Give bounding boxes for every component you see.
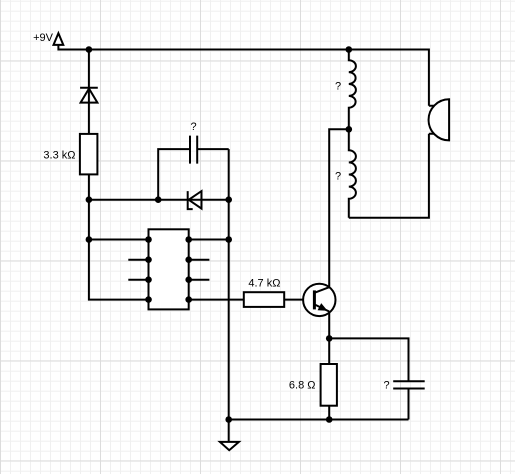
transistor Q1 collector diagonal [314, 287, 329, 293]
svg-text:?: ? [335, 81, 341, 93]
wire: middle branch from C1 down to ground [228, 149, 230, 442]
junction: IC pin 3 left [145, 276, 152, 283]
transistor Q1 emitter arrow [318, 303, 328, 311]
junction: C1 left leg at y=200 [155, 196, 162, 203]
junction: inductors L1/L2 / collector wire [346, 126, 353, 133]
svg-text:?: ? [383, 380, 389, 392]
speaker LS1 connector stubs [429, 106, 434, 134]
junction: IC pin 2 right [185, 256, 192, 263]
junction: IC pin 4 left [145, 296, 152, 303]
wire: bottom rail from ground branch to C2 [229, 419, 409, 421]
inductor L1 (value ?) [349, 50, 356, 130]
IC U1 body [149, 229, 189, 309]
wire: capacitor C1 right leg [197, 148, 229, 150]
junction: IC pin 1 right [185, 236, 192, 243]
resistor R2 4.7 kOhm body [244, 292, 284, 307]
wire: +9V rail from power symbol to top-right corner [58, 45, 429, 106]
wire: left branch from rail down through D1/R1 to IC pin row 4 [89, 50, 149, 300]
svg-text:+9V: +9V [33, 32, 54, 44]
junction: C1 right leg / middle branch [225, 196, 232, 203]
junction: IC pin 2 left [145, 256, 152, 263]
transistor Q1 base bar [313, 290, 316, 309]
svg-text:3.3 kΩ: 3.3 kΩ [43, 150, 75, 162]
resistor R3 6.8 Ohm body [321, 364, 337, 406]
wire: collector of Q1 up and to inductor junction [329, 129, 349, 287]
power symbol +9V [54, 33, 64, 45]
speaker LS1 body [429, 99, 450, 140]
svg-text:?: ? [335, 171, 341, 183]
junction: IC pin 4 right [185, 296, 192, 303]
junction: left branch / IC pin 1 wire [86, 236, 93, 243]
transistor Q1 circle [303, 284, 335, 316]
ground symbol [220, 442, 239, 450]
svg-text:4.7 kΩ: 4.7 kΩ [248, 278, 280, 290]
junction: emitter / C2 wire [326, 335, 333, 342]
wire: IC pin row 1 right to middle branch [189, 239, 229, 241]
diode D1 triangle [81, 89, 98, 103]
junction: rail / inductor L1 [346, 46, 353, 53]
diode D2 cathode bar with foot [188, 191, 193, 209]
diode D1 cathode bar [80, 87, 98, 89]
capacitor C2 plates (value ?) [393, 381, 425, 388]
transistor Q1 emitter diagonal [314, 304, 329, 311]
wire: IC pin 3 left stub [128, 279, 148, 281]
junction: R3 bottom / bottom rail [326, 416, 333, 423]
resistor R1 3.3 kOhm body [80, 134, 98, 175]
junction: IC pin 3 right [185, 276, 192, 283]
wire: capacitor C2 bottom leg [408, 389, 410, 420]
junction: IC pin 1 right wire / middle branch [225, 236, 232, 243]
junction: middle branch / bottom rail / ground [225, 416, 232, 423]
inductor L2 (value ?) [349, 129, 356, 218]
wire: IC pin 2 left stub [128, 259, 148, 261]
junction: IC pin 1 left [145, 236, 152, 243]
wire: IC pin 3 right stub [189, 279, 210, 281]
wire: emitter junction to capacitor C2 [329, 338, 408, 381]
wire: IC pin 2 right stub [189, 259, 210, 261]
wire: emitter of Q1 down through R3 to bottom rail [328, 312, 330, 420]
wire: speaker bottom to inductor L2 bottom [349, 134, 429, 218]
wire: horizontal net at y=200 through diode D2 [89, 199, 229, 201]
svg-text:?: ? [190, 121, 196, 133]
wire: IC pin row 1 left to left branch [89, 239, 149, 241]
wire: capacitor C1 left leg [158, 149, 190, 200]
junction: rail / left branch [86, 46, 93, 53]
junction: left branch at y=200 [86, 196, 93, 203]
capacitor C1 plates (value ?) [190, 136, 197, 164]
diode D2 triangle [189, 191, 202, 209]
wire: IC pin row 4 right through R2 to transistor base [189, 299, 304, 301]
svg-text:6.8 Ω: 6.8 Ω [289, 380, 316, 392]
